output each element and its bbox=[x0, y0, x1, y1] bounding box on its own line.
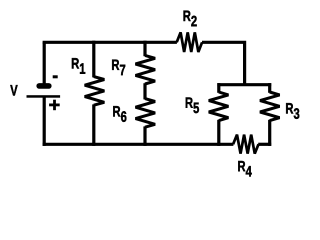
battery plus sign bbox=[49, 104, 60, 107]
label R1 bbox=[72, 58, 85, 74]
label R6 bbox=[113, 106, 126, 122]
label R7 bbox=[112, 60, 125, 76]
wire: R5 branch bottom stub bbox=[217, 120, 220, 146]
wire: R1 branch top stub bbox=[92, 41, 95, 78]
label R5 bbox=[186, 97, 199, 113]
wire: R7 branch top stub bbox=[143, 41, 146, 57]
resistor R2 (horizontal zigzag, top) bbox=[177, 32, 202, 52]
wire: R5 branch top stub bbox=[217, 83, 220, 93]
resistor R1 (vertical zigzag) bbox=[85, 77, 105, 106]
resistor R7 (vertical zigzag) bbox=[136, 55, 156, 84]
wire: R3 branch bottom stub bbox=[268, 120, 271, 146]
resistor R6 (vertical zigzag) bbox=[136, 99, 156, 128]
wire: R2 right side to top-right corner and down to parallel bar bbox=[202, 42, 245, 85]
wire: stub between R7 and R6 bbox=[143, 83, 146, 99]
label V (source) bbox=[10, 85, 17, 95]
wire: R6 branch bottom stub bbox=[143, 126, 146, 145]
battery minus sign bbox=[53, 75, 58, 78]
resistor R4 (horizontal zigzag, bottom) bbox=[233, 135, 258, 154]
resistor R5 (vertical zigzag) bbox=[209, 92, 229, 121]
label R3 bbox=[286, 103, 299, 119]
wire: battery top terminal up to top-left corner bbox=[43, 42, 46, 84]
label R4 bbox=[238, 161, 252, 177]
wire: bottom horizontal from battery to R4 bbox=[43, 143, 234, 146]
wire: R1 branch bottom stub bbox=[92, 104, 95, 145]
battery V: top (negative) plate bbox=[36, 83, 51, 89]
wire: battery bottom terminal down to bottom wire bbox=[43, 96, 46, 145]
wire: top horizontal from left corner to R2 bbox=[43, 41, 177, 44]
wire: R3 branch top stub bbox=[268, 83, 271, 93]
wire: bottom-right stub from R4 to R3 branch bbox=[258, 143, 271, 146]
battery V: bottom (positive) plate bbox=[27, 95, 61, 98]
resistor R3 (vertical zigzag) bbox=[260, 92, 280, 121]
label R2 bbox=[184, 11, 197, 27]
wire: top bar joining R5 and R3 branches bbox=[217, 83, 271, 86]
